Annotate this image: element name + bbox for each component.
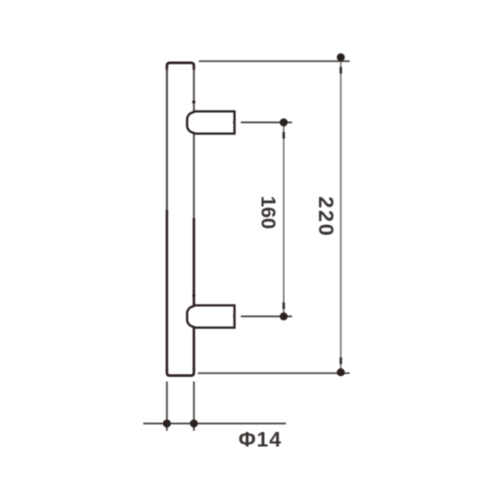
center mark bottom post [233, 315, 236, 318]
handle bar body fill [167, 63, 194, 376]
handle bar left edge lower (dark) [166, 210, 169, 369]
break dot upper [192, 100, 195, 103]
svg-text:160: 160 [257, 196, 279, 229]
handle bar right edge lower (dark) [193, 218, 196, 369]
svg-text:220: 220 [314, 196, 338, 237]
top mounting post [187, 111, 234, 133]
extension line left (phi14) [166, 382, 168, 431]
dot right phi14 [190, 420, 198, 428]
dot bottom 160 [280, 312, 288, 320]
center mark top post [233, 121, 236, 124]
extension line top (220) [199, 60, 350, 62]
extension line bottom (220) [198, 372, 350, 374]
bottom mounting post [187, 305, 234, 327]
handle bar top edge [167, 63, 194, 70]
leader line top (160) [241, 121, 292, 123]
svg-text:Φ14: Φ14 [239, 428, 282, 451]
tick above bottom dot 220 [339, 358, 342, 365]
handle bar right edge upper (light) [193, 69, 195, 218]
tick below top dot 160 [282, 132, 285, 139]
tick below top dot 220 [339, 67, 342, 74]
dimension line 220 [340, 57, 342, 372]
handle bar bottom edge [167, 368, 194, 376]
tick above bottom dot 160 [282, 303, 285, 310]
leader line bottom (160) [241, 315, 292, 317]
handle bar left edge upper (light) [166, 69, 168, 210]
break dot lower [192, 294, 195, 297]
dot top 220 [337, 53, 345, 61]
dimension line phi14 [143, 423, 286, 425]
dot top 160 [280, 118, 288, 126]
dot bottom 220 [337, 368, 345, 376]
dot left phi14 [163, 420, 171, 428]
dimension line 160 [283, 122, 285, 316]
extension line right (phi14) [193, 382, 195, 431]
